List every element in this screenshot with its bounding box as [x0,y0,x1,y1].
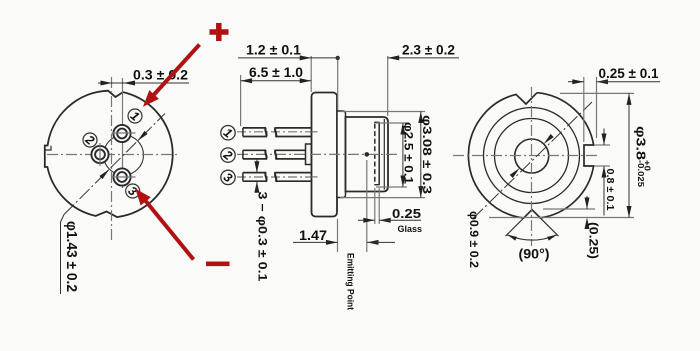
inner circle r48 [484,108,580,204]
90deg arc [507,235,557,240]
svg-text:φ2.5 ± 0.1: φ2.5 ± 0.1 [402,122,416,184]
svg-text:6.5 ± 1.0: 6.5 ± 1.0 [249,65,303,80]
extension line flange left face [310,56,312,92]
extension line pin axis [122,78,124,188]
extension line collar bottom [340,197,425,199]
right view outer outline [468,93,593,218]
svg-text:-0.025: -0.025 [636,160,646,187]
diagonal centerline [64,114,165,215]
pin 3 (bottom view) [113,168,130,185]
can body [346,117,389,192]
dim 1.47 [293,241,338,243]
svg-text:φ3.8: φ3.8 [634,126,649,160]
dim 0.25 glass [358,219,375,221]
svg-text:(0.25): (0.25) [587,222,599,259]
extension line glass bottom [376,186,407,188]
red minus sign [206,261,230,266]
dim 0.25 top-right ext lines [583,77,585,142]
dim phi0.9 arrows [544,134,554,144]
dim phi2.5 [402,123,404,187]
dim 3-phi0.3 pins [256,159,258,173]
V-notch legs extended [506,210,533,237]
label circled 2 side view [221,148,235,162]
svg-text:1.47: 1.47 [299,228,327,243]
dim 6.5 [241,80,312,82]
svg-text:φ1.43 ± 0.2: φ1.43 ± 0.2 [63,221,79,292]
svg-text:1.2 ± 0.1: 1.2 ± 0.1 [246,42,302,57]
pin 2 lead (side view, with break) [243,150,266,159]
dim 0.8 ext lines [594,144,610,146]
pin 3 lead (side view, with break) [243,173,266,182]
label circled 1 [128,109,142,123]
extension line glass top [376,122,407,124]
svg-text:(90°): (90°) [519,247,550,262]
pin row centerline stubs over flange [312,131,320,133]
center hole phi0.9 [515,139,549,173]
dim phi3.08 [420,112,422,198]
centerline vertical [111,77,113,243]
svg-text:0.25: 0.25 [392,206,421,221]
label circled 3 side view [221,170,235,184]
pin 3 centerline tick [112,176,136,178]
pin 1 (bottom view) [113,125,130,142]
leader phi1.43 [61,215,65,295]
extension line can right face [387,56,389,116]
centerline horizontal [47,154,180,156]
can inner wall [383,119,385,190]
extension line emitting point [366,160,368,252]
extension line collar left (1.47) [337,219,339,252]
centerlines right view [453,155,600,157]
extension line pin tip [240,75,242,126]
main centerline through can [310,153,397,155]
glass window [374,124,376,184]
svg-text:0.8 ± 0.1: 0.8 ± 0.1 [604,169,616,211]
svg-text:Glass: Glass [398,224,423,235]
pin2 bushing [306,144,312,165]
red arrow to pin 3 [142,197,194,260]
pin 2 centerline tick [99,143,101,166]
left tab notch detail [45,146,51,150]
svg-text:3 − φ0.3 ± 0.1: 3 − φ0.3 ± 0.1 [256,192,270,282]
svg-text:0.3 ± 0.2: 0.3 ± 0.2 [133,68,188,83]
collar [337,111,346,198]
label circled 1 side view [221,126,235,140]
dim 0.25 top-right [568,81,584,83]
svg-text:φ0.9 ± 0.2: φ0.9 ± 0.2 [467,211,481,268]
svg-text:Emitting Point: Emitting Point [345,253,356,311]
extension line collar top [340,111,425,113]
dim phi3.8 [628,93,630,217]
extension line glass left [374,188,376,224]
svg-text:0.25 ± 0.1: 0.25 ± 0.1 [599,66,659,81]
dim phi3.8 ext lines [560,92,634,94]
dim (0.25) [586,196,588,209]
dim 0.8 [603,129,605,146]
pin centerlines [237,131,318,133]
svg-text:2.3 ± 0.2: 2.3 ± 0.2 [402,42,455,57]
left view: pin-side outline of TO-can [45,91,173,217]
label circled 3 [126,184,140,198]
svg-text:φ3.08 ± 0.3: φ3.08 ± 0.3 [420,115,434,194]
emitting point dot [365,152,370,157]
label circled 2 [83,133,97,147]
window circle (emitting aperture circle) [104,135,144,175]
dim (0.25) ext line [543,208,595,210]
dim 0.3 line [98,82,189,84]
extension line glass right [378,188,380,224]
dim 2.3 [388,57,459,59]
dim 1.2 [238,57,338,59]
pin 2 (bottom view) [91,146,108,163]
dim phi1.43 arrows on diagonal [138,131,148,141]
red arrow to pin 1 [150,45,200,100]
inner circle r37 [495,119,569,193]
extension line collar left face [337,56,339,110]
pin 1 centerline tick [112,132,136,134]
flange (stem) [312,93,338,217]
red plus sign [210,29,229,35]
pin 1 lead (side view, with break) [243,128,266,137]
